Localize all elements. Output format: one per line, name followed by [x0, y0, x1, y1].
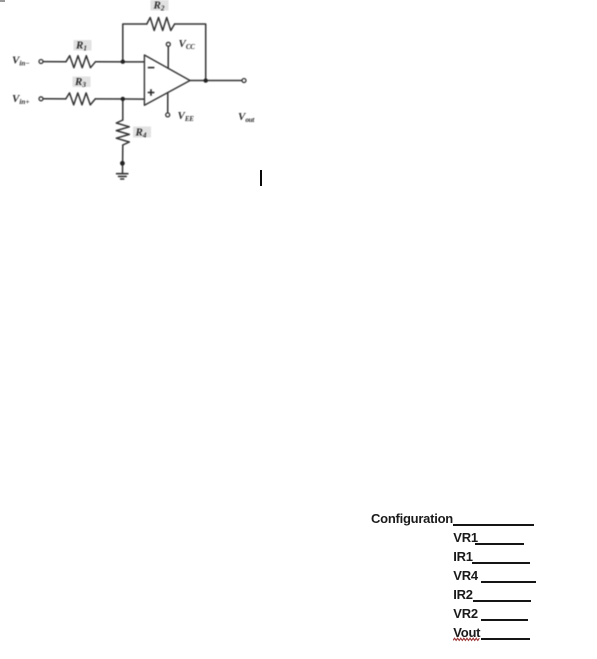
resistor R2: [147, 18, 175, 31]
wire feedback right vertical: [175, 24, 206, 81]
op-amp minus pin: [148, 67, 155, 69]
spellcheck squiggle under Vout: [453, 637, 482, 642]
wire R4 to ground: [122, 145, 124, 173]
label R2 highlight: [151, 0, 169, 11]
ground: [117, 173, 128, 175]
junction node B: [121, 97, 125, 101]
node Vout terminal: [242, 79, 246, 83]
node Vee terminal: [166, 113, 170, 117]
wire Vin- to R1: [43, 61, 66, 63]
node Vin- terminal: [39, 60, 43, 64]
op-amp U1: [144, 55, 190, 105]
wire R1 to node A: [96, 61, 145, 63]
text cursor: [260, 170, 262, 186]
svg-text:Vin+: Vin+: [12, 93, 29, 106]
wire output: [190, 80, 242, 82]
label R4 highlight: [133, 127, 151, 138]
junction output node: [204, 78, 208, 82]
resistor R1: [66, 56, 95, 68]
junction node A: [121, 60, 125, 64]
op-amp plus pin: [148, 89, 155, 96]
node Vcc terminal: [166, 42, 170, 46]
wire node B to R4: [122, 99, 124, 120]
label R1 highlight: [74, 40, 92, 51]
wire feedback left vertical: [123, 24, 147, 62]
svg-text:VEE: VEE: [178, 110, 195, 123]
svg-text:Vout: Vout: [238, 111, 255, 124]
resistor R4: [116, 120, 129, 145]
answer blanks block: [371, 511, 453, 526]
wire Vee stub: [167, 93, 169, 113]
resistor R3: [66, 93, 95, 105]
svg-text:VCC: VCC: [179, 38, 196, 51]
wire Vin+ to R3: [43, 98, 66, 100]
wire Vcc stub: [167, 46, 169, 68]
svg-text:Vin−: Vin−: [12, 55, 30, 68]
junction ground node: [120, 161, 125, 166]
circuit schematic: [0, 0, 300, 200]
wire R3 to node B: [95, 98, 144, 100]
label R3 highlight: [73, 77, 91, 88]
corner artifact mark: [0, 0, 5, 2]
node Vin+ terminal: [39, 97, 43, 101]
